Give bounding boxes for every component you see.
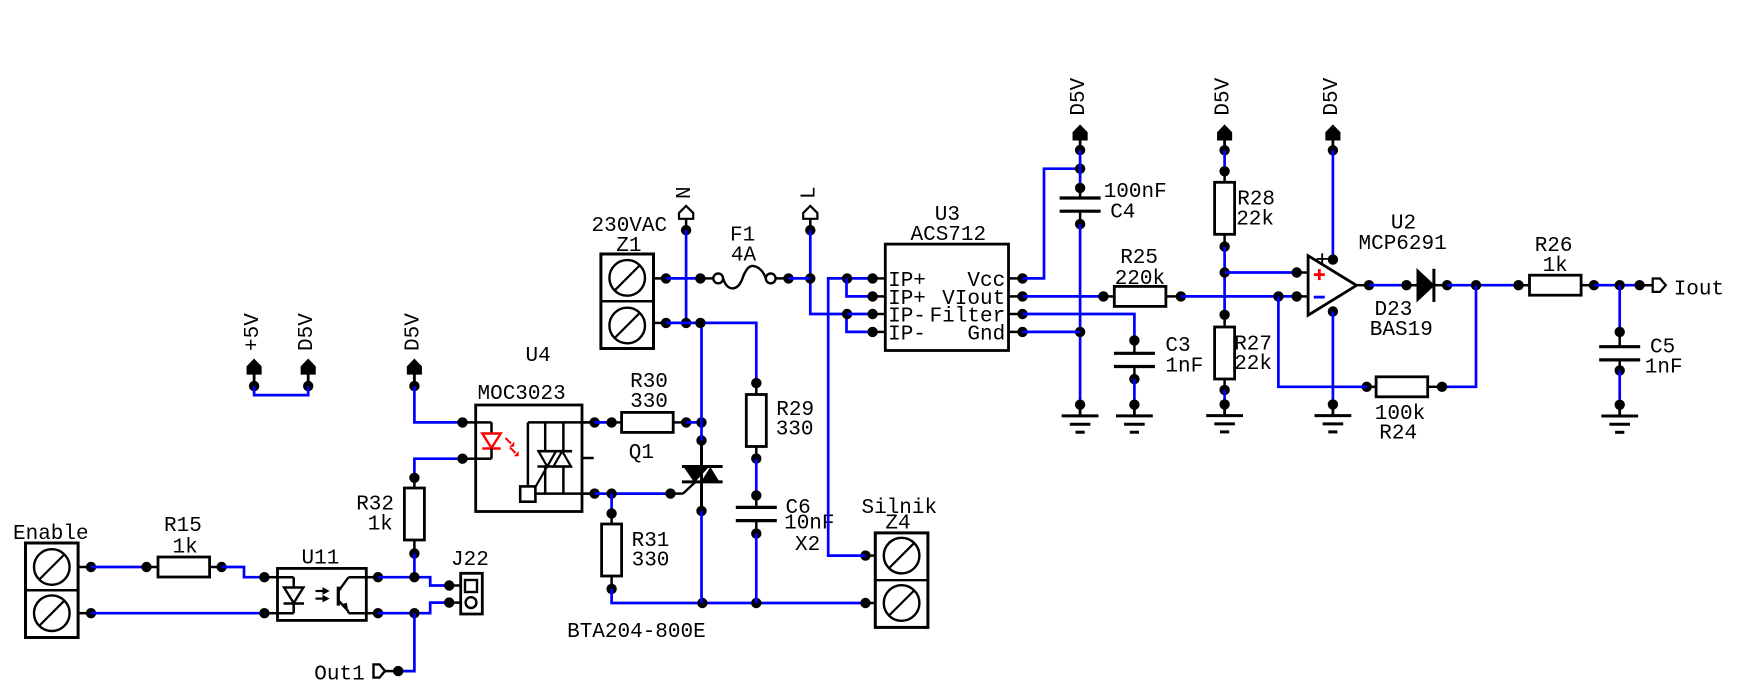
pin label Vcc: [967, 270, 1005, 293]
svg-text:MOC3023: MOC3023: [478, 383, 566, 406]
label C5: [1650, 337, 1675, 360]
ground: [1062, 400, 1099, 433]
wire Enable.1 to R15: [91, 566, 147, 569]
op-amp U2: [1292, 253, 1375, 316]
label N: [674, 186, 697, 199]
label R28 value 22k: [1236, 209, 1274, 232]
label R26: [1535, 235, 1573, 258]
port N: [679, 206, 693, 236]
wire D23 to R26: [1447, 280, 1518, 290]
port L: [803, 206, 817, 236]
wire R30 to Q1 column: [686, 417, 707, 427]
capacitor C6: [736, 490, 777, 539]
triac Q1: [665, 435, 722, 516]
label Enable: [13, 523, 89, 546]
fuse F1: [700, 266, 793, 288]
resistor R30: [606, 412, 691, 432]
label C4: [1110, 201, 1135, 224]
resistor R27: [1215, 310, 1235, 396]
svg-text:1nF: 1nF: [1165, 356, 1203, 379]
svg-text:330: 330: [632, 550, 670, 573]
wire R27 to ground: [1223, 390, 1226, 405]
wire IP- pin4 tie: [842, 309, 873, 332]
wire Z1.2 to R29 column: [666, 318, 756, 383]
pin label Filter: [930, 306, 1006, 329]
label MCP6291: [1358, 233, 1446, 256]
pin label IP-: [888, 306, 926, 329]
ground: [1116, 400, 1153, 433]
svg-text:R15: R15: [164, 515, 202, 538]
resistor R29: [746, 378, 766, 464]
wire R29 to C6: [755, 459, 758, 496]
wire op-amp gnd: [1332, 312, 1335, 405]
label 230VAC: [592, 215, 668, 238]
svg-text:Z1: Z1: [616, 235, 641, 258]
wire Enable.2 to U11 pin2: [91, 612, 264, 615]
port Iout: [1640, 279, 1666, 292]
svg-text:BTA204-800E: BTA204-800E: [567, 621, 706, 644]
svg-text:1k: 1k: [1543, 255, 1568, 278]
label C4 value 100nF: [1104, 181, 1167, 204]
wire U11 pin2 to J22 pin2: [378, 603, 449, 619]
wire R24 to op-amp minus: [1278, 296, 1366, 386]
label R28: [1237, 189, 1275, 212]
resistor R24: [1362, 377, 1448, 397]
label R15 value 1k: [172, 536, 197, 559]
wire feedback down: [1442, 285, 1476, 387]
wire C5 to ground: [1618, 370, 1621, 404]
diode D23: [1401, 269, 1452, 302]
svg-text:220k: 220k: [1115, 268, 1165, 291]
pin label IP-: [888, 324, 926, 347]
wire R32 to node A: [413, 554, 416, 578]
optocoupler U11: [259, 568, 383, 620]
label R27 value 22k: [1234, 353, 1272, 376]
label ACS712: [910, 224, 986, 247]
svg-text:MCP6291: MCP6291: [1358, 233, 1446, 256]
label D23 value BAS19: [1370, 319, 1433, 342]
wire VIout to R25: [1023, 295, 1104, 298]
svg-text:Enable: Enable: [13, 523, 89, 546]
svg-text:IP-: IP-: [888, 324, 926, 347]
label Out1: [314, 663, 364, 686]
label R30: [630, 371, 668, 394]
wire IP- row: [847, 313, 873, 316]
label R30 value 330: [630, 391, 668, 414]
svg-text:1nF: 1nF: [1645, 357, 1683, 380]
label Q1 value BTA204-800E: [567, 621, 706, 644]
svg-text:Iout: Iout: [1674, 279, 1724, 302]
optotriac U4: [457, 405, 600, 512]
svg-text:L: L: [798, 186, 821, 199]
wire C3 to ground: [1133, 379, 1136, 405]
svg-text:ACS712: ACS712: [910, 224, 986, 247]
label U4: [526, 345, 551, 368]
label R32: [356, 494, 394, 517]
label U3: [935, 204, 960, 227]
svg-text:D5V: D5V: [1213, 77, 1236, 115]
label R29 value 330: [776, 419, 814, 442]
wire D5V to C4: [1079, 150, 1082, 188]
label R32 value 1k: [368, 514, 393, 537]
power D5V: [296, 313, 319, 392]
label U11: [301, 547, 339, 570]
svg-text:22k: 22k: [1236, 209, 1274, 232]
wire R25 to op-amp minus: [1181, 291, 1297, 301]
pin label Gnd: [967, 324, 1005, 347]
svg-text:D5V: D5V: [296, 313, 319, 351]
power D5V: [1068, 77, 1091, 155]
wire Q1 to bottom rail: [700, 511, 703, 603]
label R25: [1120, 247, 1158, 270]
wire node to C5: [1618, 285, 1621, 332]
pin label IP+: [888, 288, 926, 311]
label Silnik: [862, 497, 938, 520]
wire Z1.1 to F1: [666, 273, 706, 283]
svg-text:D5V: D5V: [402, 313, 425, 351]
capacitor C5: [1599, 327, 1640, 376]
svg-text:U11: U11: [301, 547, 339, 570]
power +5V: [242, 313, 265, 392]
wire op-amp out to D23: [1369, 284, 1407, 287]
label R15: [164, 515, 202, 538]
wire Gnd pin to rail: [1023, 331, 1081, 334]
svg-text:1k: 1k: [172, 536, 197, 559]
svg-text:Gnd: Gnd: [967, 324, 1005, 347]
IC U3 ACS712: [867, 244, 1027, 350]
svg-text:BAS19: BAS19: [1370, 319, 1433, 342]
label Z1: [616, 235, 641, 258]
label C6: [786, 497, 811, 520]
svg-text:+5V: +5V: [242, 313, 265, 351]
label U4 value MOC3023: [478, 383, 566, 406]
wire D5V to R28: [1223, 150, 1226, 171]
power D5V: [402, 313, 425, 392]
svg-text:330: 330: [630, 391, 668, 414]
wire R15 to U11 pin1: [222, 567, 265, 577]
resistor R28: [1215, 166, 1235, 252]
wire node to port Out1: [399, 613, 414, 671]
svg-text:Z4: Z4: [885, 513, 910, 536]
wire Filter to C3: [1023, 314, 1135, 340]
svg-text:U4: U4: [526, 345, 551, 368]
wire divider to op-amp plus: [1225, 271, 1297, 274]
wire IP+ pin2 tie: [847, 278, 873, 296]
wire U11 pin1 to J22 pin1: [378, 572, 449, 586]
wire IP+ to Z4.1: [828, 273, 872, 555]
pin label IP+: [888, 270, 926, 293]
label F1 value 4A: [731, 245, 757, 268]
connector Z1 230VAC: [601, 254, 671, 349]
svg-text:R25: R25: [1120, 247, 1158, 270]
label R29: [776, 399, 814, 422]
wire Vcc to D5V node: [1023, 164, 1086, 279]
wire N to Z1.2: [681, 230, 691, 328]
wire D5V to op-amp supply: [1332, 150, 1335, 259]
wire F1 to L node: [789, 277, 811, 280]
svg-text:J22: J22: [451, 549, 489, 572]
label R24: [1379, 423, 1417, 446]
label R31: [632, 530, 670, 553]
label J22: [451, 549, 489, 572]
label C6 value 10nF: [784, 513, 834, 536]
wire C4 to ground: [1075, 224, 1085, 405]
label Q1: [629, 442, 654, 465]
label R24 value 100k: [1375, 403, 1425, 426]
resistor R26: [1513, 275, 1599, 295]
wire U4 top pin to R30: [595, 421, 612, 424]
wire C6 to bottom rail: [755, 534, 758, 603]
power D5V: [1321, 77, 1344, 155]
label C5 value 1nF: [1645, 357, 1683, 380]
svg-text:4A: 4A: [731, 245, 757, 268]
svg-text:1k: 1k: [368, 514, 393, 537]
svg-text:D5V: D5V: [1068, 77, 1091, 115]
wire R28 to R27: [1219, 247, 1229, 315]
wire U4 pin2 to R32: [414, 459, 462, 478]
svg-text:Out1: Out1: [314, 663, 364, 686]
wire U4 bottom pin to Q1 gate: [595, 488, 671, 498]
label D23: [1375, 299, 1413, 322]
label R25 value 220k: [1115, 268, 1165, 291]
wire D5V to U4 pin1: [414, 386, 462, 422]
wire Z1.2 to R30/Q1 node: [700, 323, 703, 441]
connector J22: [444, 573, 482, 614]
svg-text:22k: 22k: [1234, 353, 1272, 376]
resistor R32: [404, 473, 424, 559]
ground: [1601, 400, 1638, 433]
label C6 value X2: [795, 534, 820, 557]
label R31 value 330: [632, 550, 670, 573]
svg-text:R24: R24: [1379, 423, 1417, 446]
capacitor C4: [1060, 183, 1101, 230]
wire R26 to Iout: [1594, 280, 1645, 290]
label C3 value 1nF: [1165, 356, 1203, 379]
svg-text:330: 330: [776, 419, 814, 442]
label Iout: [1674, 279, 1724, 302]
wire R31 to bottom rail: [612, 589, 866, 608]
label R27: [1234, 334, 1272, 357]
label C3: [1165, 335, 1190, 358]
ground: [1315, 399, 1352, 432]
resistor R31: [602, 508, 622, 594]
label F1: [730, 225, 755, 248]
svg-text:D5V: D5V: [1321, 77, 1344, 115]
label Z4: [885, 513, 910, 536]
svg-text:X2: X2: [795, 534, 820, 557]
resistor R25: [1098, 286, 1186, 306]
svg-text:C4: C4: [1110, 201, 1135, 224]
resistor R15: [141, 557, 227, 577]
power D5V: [1213, 77, 1236, 155]
svg-text:N: N: [674, 186, 697, 199]
wire +5V to D5V: [254, 386, 308, 395]
connector Z4 Silnik: [860, 533, 928, 628]
label R26 value 1k: [1543, 255, 1568, 278]
label L: [798, 186, 821, 199]
label U2: [1391, 213, 1416, 236]
pin label VIout: [942, 288, 1005, 311]
wire node to R31: [610, 494, 613, 514]
capacitor C3: [1114, 335, 1155, 384]
ground: [1206, 399, 1243, 432]
wire L to IP- pins: [805, 230, 847, 314]
port Out1: [374, 664, 404, 677]
svg-text:Q1: Q1: [629, 442, 654, 465]
connector Enable terminal block: [26, 543, 97, 638]
